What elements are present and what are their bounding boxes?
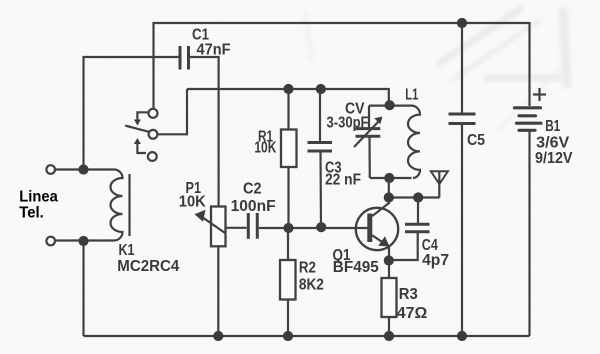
terminal Linea Tel top — [46, 165, 55, 174]
svg-text:C2: C2 — [243, 181, 262, 198]
transistor Q1 body — [356, 208, 398, 250]
wire CV top — [368, 106, 370, 129]
wire R3 bottom — [388, 317, 390, 336]
wire left branch from C1 down to top terminal node — [84, 57, 179, 170]
relay K1 core bar — [128, 174, 130, 236]
transistor Q1 emitter lead — [372, 235, 389, 246]
wire P1 bottom to ground rail — [217, 246, 219, 336]
svg-text:3-30pF: 3-30pF — [327, 115, 369, 132]
switch arrow up — [134, 138, 146, 153]
svg-text:22 nF: 22 nF — [325, 172, 361, 189]
wire C4 top — [417, 198, 419, 225]
svg-text:47Ω: 47Ω — [397, 305, 428, 322]
antenna ANT — [431, 171, 448, 197]
node junction tank top — [385, 100, 395, 110]
terminal Linea Tel bottom — [46, 237, 55, 246]
wire battery bottom — [528, 130, 530, 336]
transistor Q1 collector lead — [372, 203, 389, 217]
variable capacitor CV arrow — [354, 117, 383, 148]
inductor L1 — [408, 106, 420, 178]
svg-text:R3: R3 — [399, 286, 418, 303]
wire tank bottom to collector rail — [388, 178, 390, 204]
capacitor C2 — [248, 213, 257, 239]
switch S1 bottom contact — [148, 152, 157, 161]
svg-text:8K2: 8K2 — [299, 277, 324, 294]
resistor R3 — [382, 278, 397, 317]
svg-text:10K: 10K — [179, 194, 206, 211]
wire C5 top — [461, 23, 463, 114]
wire C4 bottom elbow to emitter — [389, 232, 418, 260]
transistor Q1 emitter arrow — [378, 236, 389, 246]
wire P1 tap to C2 — [226, 227, 247, 229]
wire tank top rail — [369, 104, 412, 106]
svg-text:BF495: BF495 — [333, 259, 379, 276]
wire R2 top — [287, 228, 289, 260]
svg-text:Linea: Linea — [19, 188, 58, 205]
svg-text:L1: L1 — [405, 87, 418, 104]
capacitor C4 — [405, 224, 430, 232]
node junction C3 mid rail — [316, 84, 326, 94]
resistor R2 — [280, 260, 296, 300]
node junction collector — [384, 192, 394, 202]
switch arrow down — [134, 112, 148, 125]
wire bottom terminal node down to ground rail — [82, 241, 84, 336]
variable capacitor CV plates — [356, 129, 381, 137]
wire C3 top — [319, 89, 321, 143]
relay coil K1 — [55, 170, 123, 241]
wire switch common to mid rail — [158, 89, 188, 134]
potentiometer P1 wiper arrow — [195, 210, 226, 234]
wire bottom ground rail — [84, 335, 530, 337]
svg-text:4p7: 4p7 — [422, 252, 449, 269]
node junction R2 ground — [283, 331, 293, 341]
resistor R1 — [281, 130, 297, 168]
svg-text:9/12V: 9/12V — [535, 150, 573, 167]
svg-text:B1: B1 — [545, 118, 560, 135]
node junction C5 ground — [457, 331, 467, 341]
wire R1 bottom — [287, 167, 289, 228]
switch S1 middle contact — [149, 130, 158, 139]
svg-text:K1: K1 — [119, 242, 135, 259]
svg-text:3/6V: 3/6V — [536, 134, 569, 151]
wire C3 bottom — [319, 151, 322, 228]
node junction emitter — [384, 255, 394, 265]
svg-text:100nF: 100nF — [231, 198, 276, 215]
wire emitter down — [388, 246, 390, 278]
wire R1 top — [287, 89, 289, 130]
wire base node rail — [259, 227, 368, 229]
svg-text:Tel.: Tel. — [19, 205, 44, 222]
node junction C4 top — [413, 192, 423, 202]
svg-text:MC2RC4: MC2RC4 — [117, 258, 179, 275]
capacitor C5 — [449, 114, 476, 124]
wire R2 bottom — [287, 300, 289, 337]
transistor Q1 base bar — [367, 214, 372, 243]
svg-text:10K: 10K — [254, 140, 276, 157]
node junction C3 base — [316, 222, 326, 232]
svg-text:47nF: 47nF — [197, 42, 231, 59]
node junction R3 ground — [384, 331, 394, 341]
battery plus sign — [533, 88, 546, 101]
wire C1 right plate to P1 top — [190, 57, 219, 207]
node junction left top — [78, 164, 88, 174]
wire mid rail to tank top — [187, 89, 389, 106]
wire collector rail to antenna — [389, 196, 440, 198]
node junction R1 mid rail — [283, 84, 293, 94]
switch S1 lever — [125, 126, 149, 132]
node junction P1 ground — [213, 331, 223, 341]
capacitor C1 — [180, 46, 189, 70]
node junction R1 R2 — [283, 223, 293, 233]
wire CV bottom — [368, 136, 370, 178]
wire C5 bottom — [461, 124, 463, 337]
switch S1 top contact — [149, 109, 158, 118]
wire top supply rail — [154, 23, 530, 110]
node junction left bottom — [78, 236, 88, 246]
node junction tank bottom — [384, 173, 394, 183]
svg-text:C5: C5 — [467, 132, 485, 149]
wire tank bottom rail — [370, 177, 412, 179]
capacitor C3 — [308, 143, 333, 152]
potentiometer P1 body — [211, 207, 226, 247]
node junction C5 top rail — [457, 18, 467, 28]
svg-text:R2: R2 — [299, 259, 316, 276]
battery B1 plates — [515, 108, 542, 131]
